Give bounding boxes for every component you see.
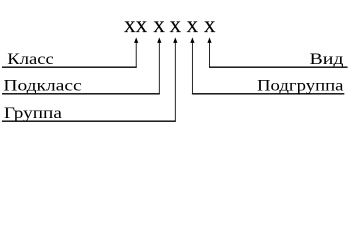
svg-text:Группа: Группа [4, 105, 62, 122]
arrow to class [134, 37, 138, 43]
arrow to subclass [157, 37, 161, 43]
arrow to group [173, 37, 177, 43]
svg-text:X: X [187, 19, 199, 36]
svg-text:X: X [153, 19, 165, 36]
svg-text:X: X [170, 19, 182, 36]
arrow to vid [207, 37, 211, 43]
wire class line [2, 66, 137, 68]
wire group line [2, 120, 176, 122]
wire vid line [209, 66, 348, 68]
svg-text:Класс: Класс [7, 51, 54, 68]
svg-text:XX: XX [124, 19, 148, 36]
arrow to subgroup [190, 37, 194, 43]
wire subgroup line [192, 93, 344, 95]
svg-text:Подгруппа: Подгруппа [257, 78, 344, 95]
svg-text:Вид: Вид [310, 51, 344, 68]
wire subclass line [2, 93, 160, 95]
svg-text:Подкласс: Подкласс [3, 78, 81, 95]
svg-text:X: X [204, 19, 216, 36]
